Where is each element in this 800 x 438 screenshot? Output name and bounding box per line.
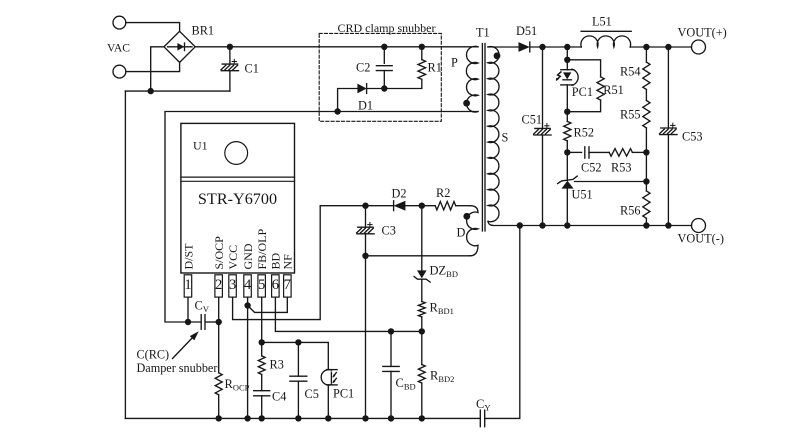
pin label NF bbox=[281, 254, 295, 270]
pin label S/OCP bbox=[212, 236, 226, 270]
junction Cbd top bbox=[388, 328, 394, 334]
wire C52 left lead bbox=[567, 151, 581, 153]
wire C51 bottom lead bbox=[542, 135, 544, 226]
L51 core line bbox=[581, 30, 631, 32]
svg-text:C4: C4 bbox=[272, 390, 286, 404]
wire D winding return bbox=[366, 255, 471, 257]
junction R52-C52 node bbox=[564, 149, 570, 155]
wire U51 cathode ref line bbox=[575, 181, 647, 183]
wire pin 5 lead bbox=[261, 298, 263, 343]
wire C51 top lead bbox=[542, 47, 544, 128]
wire Rbd2 bottom lead bbox=[421, 383, 423, 418]
svg-text:R53: R53 bbox=[611, 160, 632, 174]
node VAC top terminal bbox=[113, 16, 126, 29]
resistor R51 bbox=[597, 77, 604, 100]
wire D51 to L51 bbox=[530, 46, 581, 48]
wire C5 bottom lead bbox=[297, 381, 299, 418]
snubber box bbox=[319, 33, 441, 121]
svg-text:CRD clamp snubber: CRD clamp snubber bbox=[338, 21, 436, 35]
svg-text:R2: R2 bbox=[436, 186, 450, 200]
svg-text:VCC: VCC bbox=[226, 245, 240, 270]
label C52 bbox=[581, 160, 602, 174]
label C51 bbox=[522, 113, 543, 127]
junction BD node bbox=[419, 328, 425, 334]
junction U51 bottom bbox=[564, 222, 570, 228]
wire bottom terminal to bridge AC2 bbox=[126, 62, 180, 71]
svg-text:GND: GND bbox=[241, 243, 255, 269]
junction Rocp ground bbox=[216, 415, 222, 421]
wire negative rail bbox=[125, 90, 229, 92]
transformer core bbox=[482, 44, 485, 232]
resistor R2 bbox=[435, 202, 456, 210]
svg-text:U1: U1 bbox=[193, 139, 208, 153]
wire Cy to secondary ground bbox=[485, 226, 520, 419]
label VOUT(+) bbox=[678, 26, 727, 40]
capacitor C2 bbox=[376, 66, 392, 71]
svg-text:C52: C52 bbox=[581, 160, 602, 174]
label PC1 primary bbox=[333, 387, 354, 401]
wire Rocp bottom lead bbox=[218, 395, 220, 419]
label R52 bbox=[574, 126, 595, 140]
svg-text:VAC: VAC bbox=[107, 42, 130, 55]
resistor R56 bbox=[643, 191, 650, 218]
svg-text:C53: C53 bbox=[682, 130, 703, 144]
junction divider-C52R53 bbox=[643, 149, 649, 155]
wire C3 top lead bbox=[365, 206, 367, 228]
wire R55 to R56 bbox=[645, 128, 647, 191]
svg-text:C1: C1 bbox=[245, 62, 259, 76]
wire D1 cathode lead bbox=[367, 88, 384, 90]
pin label FB/OLP bbox=[255, 228, 269, 269]
junction VCC C3 top bbox=[362, 203, 368, 209]
wire D1 anode lead bbox=[338, 89, 358, 112]
resistor R55 bbox=[643, 101, 650, 128]
bridge rectifier BR1 bbox=[164, 31, 195, 62]
wire C5 top lead bbox=[297, 342, 299, 376]
svg-text:R3: R3 bbox=[270, 358, 284, 372]
wire R3 to C4 bbox=[261, 375, 263, 391]
wire VCC line from pin 3 bbox=[233, 206, 394, 320]
label R53 bbox=[611, 160, 632, 174]
label R55 bbox=[620, 108, 641, 122]
junction pin1-Cv bbox=[185, 319, 191, 325]
label T1 bbox=[476, 26, 490, 40]
wire pin 1 lead bbox=[187, 298, 189, 322]
pin label GND bbox=[241, 243, 255, 269]
wire R54-R55 bbox=[645, 90, 647, 101]
label Cbd bbox=[396, 376, 416, 392]
junction C51 bottom bbox=[539, 222, 545, 228]
wire PC1 emitter lead bbox=[327, 385, 329, 419]
transformer auxiliary winding D bbox=[467, 206, 478, 256]
label P bbox=[451, 56, 458, 70]
label DZbd bbox=[430, 264, 458, 280]
wire R54 top lead bbox=[645, 47, 647, 62]
junction C3 ground bbox=[362, 415, 368, 421]
U1 pin boxes bbox=[184, 275, 291, 297]
wire BD line from pin 6 bbox=[275, 298, 421, 332]
wire LED bottom lead bbox=[566, 85, 568, 122]
junction PC1 LED top bbox=[564, 44, 570, 50]
wire C2 bottom lead bbox=[383, 71, 385, 89]
svg-text:6: 6 bbox=[272, 277, 279, 293]
label R54 bbox=[620, 65, 641, 79]
svg-text:NF: NF bbox=[281, 254, 295, 270]
wire R52 bottom lead bbox=[566, 141, 568, 181]
junction bridge-negative bbox=[148, 88, 154, 94]
node VAC bottom terminal bbox=[113, 65, 126, 78]
junction pin4 node bbox=[244, 302, 250, 308]
svg-text:STR-Y6700: STR-Y6700 bbox=[198, 190, 277, 208]
svg-text:D2: D2 bbox=[392, 186, 407, 200]
svg-text:BR1: BR1 bbox=[192, 24, 215, 38]
junction FB-C5 bbox=[295, 339, 301, 345]
wire C4 bottom lead bbox=[261, 396, 263, 419]
inductor L51 bbox=[581, 36, 631, 47]
svg-text:Damper snubber: Damper snubber bbox=[137, 361, 218, 375]
diode D2 bbox=[394, 201, 406, 211]
svg-text:S/OCP: S/OCP bbox=[212, 236, 226, 270]
wire FB line bbox=[262, 342, 329, 369]
junction C53 bottom bbox=[665, 222, 671, 228]
junction Cbd ground bbox=[388, 415, 394, 421]
svg-text:R54: R54 bbox=[620, 65, 641, 79]
pin label VCC bbox=[226, 245, 240, 270]
wire drain rail bbox=[165, 112, 478, 323]
phase dot D bbox=[463, 213, 470, 220]
wire C53 bottom lead bbox=[667, 135, 669, 226]
wire Rbd1 to BD junction bbox=[421, 317, 423, 365]
node VOUT(+) terminal bbox=[692, 40, 706, 54]
svg-text:R56: R56 bbox=[620, 204, 641, 218]
svg-text:3: 3 bbox=[229, 277, 236, 293]
label Cv bbox=[195, 299, 210, 315]
resistor R1 bbox=[418, 60, 426, 80]
svg-text:7: 7 bbox=[284, 277, 291, 293]
capacitor C3 bbox=[357, 222, 375, 233]
label U1 bbox=[193, 139, 208, 153]
label BR1 bbox=[192, 24, 215, 38]
junction snubber node bbox=[381, 85, 387, 91]
label D51 bbox=[516, 24, 537, 38]
wire DZbd top lead bbox=[421, 206, 423, 271]
svg-text:PC1: PC1 bbox=[572, 85, 593, 99]
wire C2 top lead bbox=[383, 47, 385, 64]
wire Cbd bottom lead bbox=[390, 371, 392, 418]
junction C3 bottom bbox=[362, 253, 368, 259]
wire C52 to R53 bbox=[589, 151, 609, 153]
svg-text:R52: R52 bbox=[574, 126, 595, 140]
label R51 bbox=[603, 83, 624, 97]
svg-text:R1: R1 bbox=[428, 61, 442, 75]
resistor R52 bbox=[564, 121, 571, 140]
junction LED-R51 split bbox=[564, 57, 570, 63]
svg-text:VOUT(-): VOUT(-) bbox=[678, 232, 724, 246]
label Rbd2 bbox=[430, 369, 454, 385]
resistor Rbd1 bbox=[418, 302, 425, 317]
junction FB-R3 bbox=[259, 339, 265, 345]
capacitor C51 bbox=[534, 124, 552, 135]
label L51 bbox=[592, 15, 612, 29]
wire bridge negative to left rail bbox=[151, 47, 164, 91]
junction C1 top bbox=[227, 44, 233, 50]
label CRD clamp snubber bbox=[338, 21, 436, 35]
phase dot S bbox=[494, 52, 501, 59]
svg-text:D: D bbox=[457, 225, 466, 239]
label S bbox=[502, 131, 509, 145]
svg-text:R55: R55 bbox=[620, 108, 641, 122]
diode D51 bbox=[519, 42, 530, 52]
label D2 bbox=[392, 186, 407, 200]
label R3 bbox=[270, 358, 284, 372]
svg-text:D51: D51 bbox=[516, 24, 537, 38]
wire Cbd top lead bbox=[390, 331, 392, 366]
capacitor C5 bbox=[290, 376, 307, 381]
wire Rocp top lead bbox=[218, 322, 220, 373]
arrow to damper snubber bbox=[173, 331, 199, 358]
label C3 bbox=[382, 224, 396, 238]
svg-text:4: 4 bbox=[244, 277, 252, 293]
wire R51 branch top bbox=[567, 60, 600, 77]
capacitor Cv bbox=[201, 315, 205, 330]
junction R56 bottom bbox=[643, 222, 649, 228]
label STR-Y6700 bbox=[198, 190, 277, 208]
svg-text:FB/OLP: FB/OLP bbox=[255, 228, 269, 269]
junction divider-U51ref bbox=[643, 178, 649, 184]
resistor R54 bbox=[643, 62, 650, 89]
svg-text:T1: T1 bbox=[476, 26, 490, 40]
svg-text:C5: C5 bbox=[305, 387, 319, 401]
label C4 bbox=[272, 390, 286, 404]
svg-text:5: 5 bbox=[258, 277, 265, 293]
wire pin 4 to pin 7 bbox=[248, 298, 288, 313]
label PC1 secondary bbox=[572, 85, 593, 99]
svg-text:D/ST: D/ST bbox=[181, 243, 195, 270]
junction C5 ground bbox=[295, 415, 301, 421]
wire top terminal to bridge AC1 bbox=[126, 23, 180, 32]
label R2 bbox=[436, 186, 450, 200]
capacitor C52 bbox=[585, 147, 589, 158]
phase dot P bbox=[463, 100, 470, 107]
wire rectified positive rail bbox=[195, 46, 478, 48]
capacitor C1 bbox=[221, 59, 239, 70]
wire R1 bottom lead bbox=[384, 79, 422, 88]
svg-text:U51: U51 bbox=[572, 188, 593, 202]
capacitor Cy bbox=[480, 410, 484, 427]
wire C1 bottom lead bbox=[229, 71, 231, 91]
junction Rbd2 ground bbox=[419, 415, 425, 421]
label U51 bbox=[572, 188, 593, 202]
wire left rail down bbox=[124, 91, 126, 418]
label C5 bbox=[305, 387, 319, 401]
label R56 bbox=[620, 204, 641, 218]
wire C3 bottom lead bbox=[365, 234, 367, 419]
junction pin4 ground bbox=[244, 415, 250, 421]
svg-text:S: S bbox=[502, 131, 509, 145]
resistor Rocp bbox=[215, 373, 222, 395]
wire L51 to VOUT+ bbox=[630, 46, 691, 48]
transformer secondary winding S bbox=[488, 47, 499, 222]
wire LED top lead bbox=[566, 47, 568, 70]
wire secondary ground rail bbox=[488, 221, 692, 225]
junction LED-R51 bottom bbox=[564, 109, 570, 115]
junction pin2-Cv bbox=[216, 319, 222, 325]
zener DZbd bbox=[414, 270, 430, 282]
svg-text:D1: D1 bbox=[358, 99, 373, 113]
wire pin 4 ground lead bbox=[247, 298, 249, 419]
pin label D/ST bbox=[181, 243, 195, 270]
wire R56 bottom lead bbox=[645, 218, 647, 225]
svg-text:L51: L51 bbox=[592, 15, 612, 29]
transistor PC1 phototransistor bbox=[321, 370, 337, 385]
node VOUT(-) terminal bbox=[692, 219, 706, 233]
wire R53 right lead bbox=[632, 151, 646, 153]
junction D1 anode on drain rail bbox=[334, 108, 340, 114]
diode D1 bbox=[357, 84, 366, 94]
svg-text:C2: C2 bbox=[356, 61, 370, 75]
U1 pin numbers bbox=[184, 277, 291, 293]
label R1 bbox=[428, 61, 442, 75]
label C(RC) bbox=[137, 348, 170, 362]
label Cy bbox=[476, 397, 490, 413]
svg-text:C51: C51 bbox=[522, 113, 543, 127]
label Damper snubber bbox=[137, 361, 218, 375]
junction R1 top bbox=[419, 44, 425, 50]
wire pin 2 lead bbox=[218, 298, 220, 322]
capacitor C4 bbox=[254, 391, 270, 396]
resistor R3 bbox=[258, 356, 265, 375]
wire C1 top lead bbox=[229, 47, 231, 64]
svg-text:2: 2 bbox=[215, 277, 222, 293]
U1 mounting hole bbox=[225, 142, 248, 165]
label D bbox=[457, 225, 466, 239]
resistor Rbd2 bbox=[418, 365, 425, 384]
junction C51 top bbox=[539, 44, 545, 50]
U1 tab band bbox=[181, 177, 295, 181]
junction C53 top bbox=[665, 44, 671, 50]
pin label BD bbox=[269, 252, 283, 269]
capacitor Cbd bbox=[383, 366, 399, 371]
svg-text:1: 1 bbox=[184, 277, 191, 293]
capacitor C53 bbox=[660, 123, 678, 134]
label C53 bbox=[682, 130, 703, 144]
wire C53 top lead bbox=[667, 47, 669, 128]
svg-text:C3: C3 bbox=[382, 224, 396, 238]
junction PC1 ground bbox=[325, 415, 331, 421]
wire R2 to D winding bbox=[456, 205, 470, 207]
label VOUT(-) bbox=[678, 232, 724, 246]
svg-text:VOUT(+): VOUT(+) bbox=[678, 26, 727, 40]
wire D2 to R2 bbox=[405, 205, 435, 207]
label Rbd1 bbox=[430, 301, 454, 317]
wire R3 top lead bbox=[261, 342, 263, 356]
resistor R53 bbox=[609, 149, 632, 157]
label VAC bbox=[107, 42, 130, 55]
label C2 bbox=[356, 61, 370, 75]
junction C4 ground bbox=[259, 415, 265, 421]
svg-text:PC1: PC1 bbox=[333, 387, 354, 401]
wire R51 bottom lead bbox=[567, 100, 600, 112]
transformer primary winding P bbox=[466, 46, 478, 112]
wire R1 top lead bbox=[421, 47, 423, 60]
wire U51 anode lead bbox=[566, 189, 568, 226]
shunt regulator U51 bbox=[558, 176, 578, 189]
label C1 bbox=[245, 62, 259, 76]
label Rocp bbox=[225, 377, 250, 393]
junction Cy riser bbox=[517, 222, 523, 228]
wire S top to D51 bbox=[488, 46, 519, 48]
wire DZbd to Rbd1 bbox=[421, 279, 423, 301]
diode PC1 LED bbox=[556, 69, 578, 85]
junction D2-R2 node bbox=[419, 203, 425, 209]
label D1 bbox=[358, 99, 373, 113]
svg-text:P: P bbox=[451, 56, 458, 70]
wire primary ground rail bbox=[125, 417, 480, 419]
junction C2 top bbox=[381, 44, 387, 50]
op-amp U1 package outline bbox=[181, 123, 295, 273]
svg-text:C(RC): C(RC) bbox=[137, 348, 170, 362]
wire Cv to pin2 node bbox=[205, 321, 219, 323]
junction R54 top bbox=[643, 44, 649, 50]
svg-text:R51: R51 bbox=[603, 83, 624, 97]
